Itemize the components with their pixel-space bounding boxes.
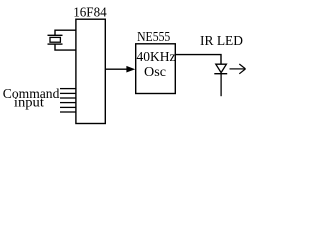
command input pin 2: [60, 92, 76, 94]
arrowhead into NE555: [126, 66, 135, 73]
label Command input: [3, 87, 60, 111]
crystal X1 bottom plate: [48, 43, 63, 45]
svg-text:NE555: NE555: [137, 30, 170, 45]
IR emission arrow: [230, 64, 246, 74]
crystal X1 top plate: [48, 34, 63, 36]
label 40KHz Osc: [137, 50, 176, 80]
crystal X1 body: [50, 37, 60, 42]
svg-text:40KHz: 40KHz: [137, 50, 176, 65]
command input pin 5: [60, 106, 76, 108]
wire crystal bottom to 16F84: [55, 44, 76, 50]
svg-text:input: input: [14, 96, 44, 111]
command input pin 3: [60, 97, 76, 99]
oscillator U2 NE555 box: [136, 44, 176, 94]
LED D1 cathode bar: [214, 73, 227, 75]
svg-text:IR LED: IR LED: [200, 34, 243, 49]
wire crystal top to 16F84: [55, 30, 76, 35]
wire NE555 to IR LED: [176, 55, 222, 64]
microcontroller U1 16F84 box: [76, 19, 105, 123]
svg-text:Osc: Osc: [144, 65, 166, 80]
svg-text:16F84: 16F84: [73, 6, 107, 21]
command input pin 1: [60, 88, 76, 90]
wire LED cathode down: [220, 74, 222, 97]
wire 16F84 output to NE555: [105, 68, 128, 70]
LED D1 triangle: [216, 64, 227, 72]
command input pin 6: [60, 111, 76, 113]
command input pin 4: [60, 102, 76, 104]
